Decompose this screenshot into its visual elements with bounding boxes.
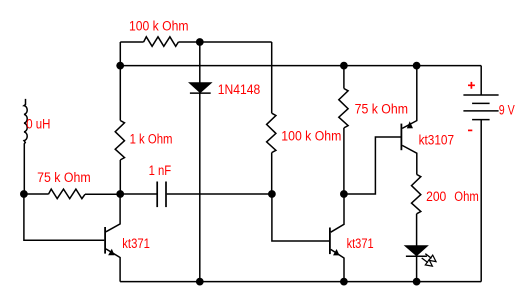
junction dot node left (20, 190, 28, 198)
LED D2 cathode bar (406, 255, 427, 257)
wire capacitor to mid node (167, 193, 272, 195)
battery B1 plate short (472, 102, 490, 104)
resistor R6 200 Ohm (vertical) (412, 174, 421, 213)
transistor Q2 collector (331, 194, 344, 232)
svg-text:kt3107: kt3107 (419, 133, 455, 149)
transistor Q2 kt371 base bar (329, 228, 331, 255)
junction dot bottom Q2 (340, 278, 348, 286)
wire from supply dot down to 75k right resistor (343, 66, 345, 89)
LED light arrow 2 (422, 258, 428, 263)
wire from R4 to node (85, 193, 120, 195)
capacitor C1 right plate (165, 182, 167, 208)
transistor Q3 emitter arrow (407, 121, 413, 128)
transistor Q1 kt371 base bar (104, 227, 106, 254)
transistor Q1 emitter arrow (108, 249, 115, 256)
battery B1 plate long top (463, 94, 498, 96)
wire top rail from R1 to right corner (178, 41, 271, 43)
junction dot supply 75k (340, 62, 348, 70)
junction dot bottom LED (413, 278, 421, 286)
junction dot node 75k bottom (340, 190, 348, 198)
resistor R2 1 k Ohm (vertical) (115, 121, 124, 160)
resistor R5 75 k Ohm (right vertical) (339, 89, 348, 128)
svg-text:75 k Ohm: 75 k Ohm (37, 170, 91, 186)
svg-text:Ohm: Ohm (454, 189, 479, 205)
diode D1 1N4148 triangle (190, 83, 211, 92)
wire mid vertical from top dot to diode (199, 42, 201, 83)
junction dot bottom diode (196, 278, 204, 286)
junction dot node 1k bottom (116, 190, 124, 198)
battery B1 plate long (463, 110, 498, 112)
LED D2 triangle (406, 246, 427, 255)
wire from top right corner down to 100k mid resistor (271, 42, 273, 113)
svg-text:100 k Ohm: 100 k Ohm (129, 19, 189, 35)
svg-text:1 k Ohm: 1 k Ohm (130, 131, 173, 147)
LED light arrow 1 (425, 254, 431, 259)
resistor R1 100 k Ohm (top horizontal) (144, 37, 179, 47)
junction dot top rail diode (196, 38, 204, 46)
svg-text:9 V: 9 V (499, 103, 515, 119)
transistor Q1 emitter (106, 249, 120, 282)
svg-text:kt371: kt371 (347, 236, 374, 252)
transistor Q3 kt3107 base bar (400, 124, 402, 151)
svg-text:100 k Ohm: 100 k Ohm (281, 128, 341, 144)
resistor R3 100 k Ohm (mid vertical) (267, 113, 276, 152)
battery minus sign (468, 129, 472, 131)
junction dot node cap right (268, 190, 276, 198)
svg-text:0 uH: 0 uH (26, 117, 50, 133)
battery B1 plate short bottom (472, 119, 490, 121)
wire node to capacitor (120, 193, 157, 195)
wire left node to 75k resistor (24, 193, 49, 195)
wire left elbow down to T1 base (24, 194, 104, 240)
inductor L1 0 uH (24, 99, 27, 194)
wire left vertical from top rail down to 1k resistor (119, 42, 121, 121)
capacitor C1 left plate (156, 182, 158, 208)
svg-text:kt371: kt371 (122, 236, 150, 252)
svg-text:1 nF: 1 nF (149, 163, 172, 179)
wire from R5 down to node (343, 128, 345, 194)
wire from R3 down to node (271, 153, 273, 194)
transistor Q2 emitter (331, 249, 344, 281)
resistor R4 75 k Ohm (left horizontal) (48, 189, 85, 199)
wire mid elbow down to T2 base (272, 194, 329, 241)
svg-text:200: 200 (426, 189, 446, 205)
transistor Q3 emitter (402, 66, 417, 129)
wire right elbow from node to T3 base (344, 137, 401, 194)
junction dot wire B left (116, 62, 124, 70)
wire battery top lead (480, 66, 482, 95)
bottom ground rail (120, 281, 481, 283)
wire from R6 down to LED (416, 214, 418, 246)
wire B supply rail y=65.6 (120, 65, 481, 67)
wire mid vertical from diode to bottom rail (199, 92, 201, 281)
transistor Q2 emitter arrow (333, 249, 340, 255)
svg-text:75 k Ohm: 75 k Ohm (355, 101, 408, 117)
wire top rail from left corner to 100k resistor (120, 41, 143, 43)
wire from R2 down to node row (119, 160, 121, 194)
transistor Q3 collector (402, 145, 417, 174)
svg-text:1N4148: 1N4148 (218, 82, 260, 98)
wire LED to bottom rail (416, 256, 418, 281)
junction dot supply kt3107 (413, 62, 421, 70)
transistor Q1 collector (106, 194, 120, 232)
diode D1 cathode bar (190, 92, 211, 94)
wire battery bottom lead (480, 120, 482, 282)
battery plus sign (468, 82, 475, 89)
